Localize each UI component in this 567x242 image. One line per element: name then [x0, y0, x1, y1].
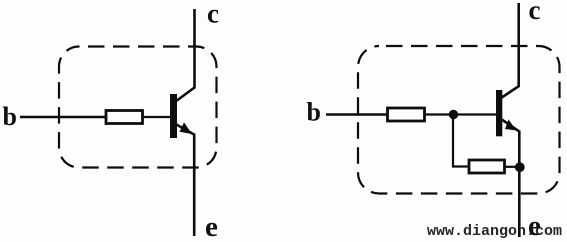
svg-text:c: c: [207, 0, 219, 29]
transistor Q2 emitter arrow (NPN): [505, 120, 517, 131]
junction node on emitter line (dot): [515, 162, 525, 172]
wire: collector to terminal c (left circuit): [193, 9, 196, 89]
transistor Q1 base bar (left circuit): [170, 94, 177, 138]
wire: resistor to transistor base (left circuit): [143, 116, 172, 118]
svg-text:b: b: [307, 98, 321, 127]
wire: base lead from b (right circuit): [326, 113, 388, 115]
wire: collector to terminal c (right circuit): [517, 3, 520, 87]
transistor Q2 emitter lead: [501, 119, 519, 132]
dashed equivalent-circuit enclosure (left): [59, 47, 217, 168]
transistor Q2 collector lead: [501, 86, 519, 98]
svg-text:www.diangon.com: www.diangon.com: [427, 223, 562, 240]
svg-text:b: b: [3, 102, 17, 131]
transistor Q2 base bar (right circuit): [496, 90, 502, 136]
dashed equivalent-circuit enclosure (right): [358, 46, 560, 194]
svg-text:e: e: [205, 211, 218, 242]
resistor R (left circuit, base resistor): [106, 111, 143, 124]
wire: node B' to transistor base (right circuit): [457, 113, 497, 115]
transistor Q1 emitter lead: [176, 124, 195, 135]
transistor Q1 emitter arrow (NPN): [180, 122, 193, 134]
svg-text:c: c: [529, 0, 541, 25]
junction node B' (dot): [449, 110, 458, 119]
wire: emitter down to terminal e (right circuit): [518, 131, 521, 238]
resistor R2 (right circuit, feedback resistor): [469, 160, 505, 173]
wire: down leg to resistor R2: [452, 165, 469, 167]
resistor R1 (right circuit, base resistor): [388, 108, 425, 121]
svg-text:e: e: [528, 210, 541, 242]
wire: node B' down leg (right circuit): [452, 117, 454, 168]
wire: emitter to terminal e (left circuit): [193, 134, 196, 237]
wire: R2 to emitter node: [505, 166, 518, 168]
transistor Q1 collector lead: [176, 88, 195, 102]
wire: base lead from b (left circuit): [20, 116, 106, 118]
wire: R1 to node B': [425, 113, 451, 115]
